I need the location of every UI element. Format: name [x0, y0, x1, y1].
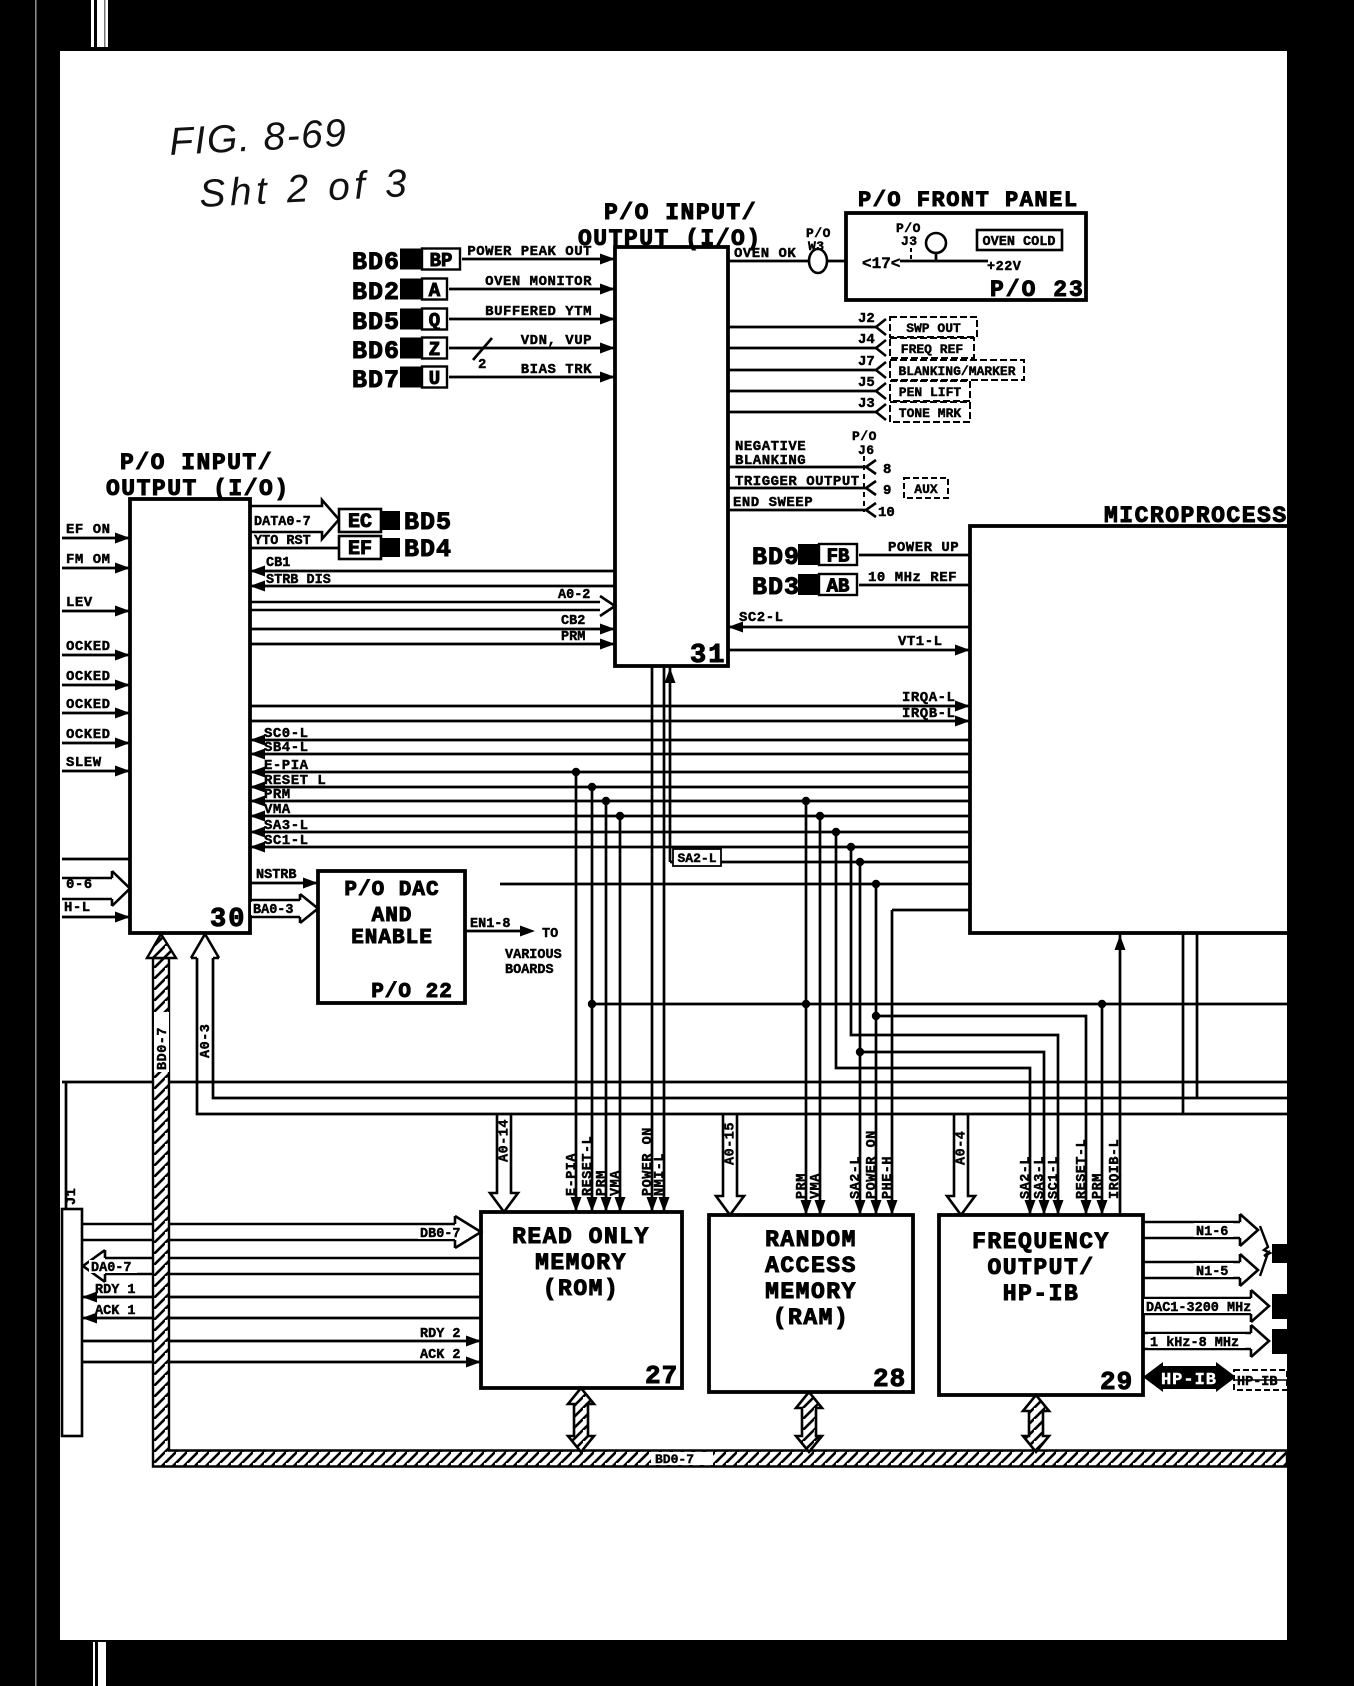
- junction dot POWER ON RAM: [872, 880, 880, 888]
- bus A0-15 open arrow drop: [716, 1114, 744, 1215]
- label AUX dashed box: [904, 478, 948, 498]
- svg-text:A0-2: A0-2: [558, 588, 590, 603]
- wire FM OM from sheet edge: [62, 567, 130, 570]
- wire to connector J5: [728, 390, 876, 393]
- svg-text:P/O: P/O: [852, 429, 877, 444]
- wire POWER UP into microprocessor: [859, 554, 970, 557]
- svg-text:SC2-L: SC2-L: [739, 610, 784, 626]
- svg-text:NMI-L: NMI-L: [653, 1153, 668, 1196]
- wire VMA drop to RAM: [819, 816, 822, 1215]
- svg-text:STRB DIS: STRB DIS: [266, 573, 331, 588]
- wire PHE-H stub from microprocessor: [892, 909, 970, 912]
- svg-text:OVEN MONITOR: OVEN MONITOR: [485, 274, 592, 290]
- svg-text:10: 10: [878, 505, 895, 521]
- svg-text:IRQB-L: IRQB-L: [902, 706, 955, 722]
- svg-text:TO: TO: [542, 927, 558, 942]
- svg-text:Z: Z: [429, 339, 440, 361]
- svg-text:J6: J6: [858, 443, 875, 458]
- wire NSTRB to DAC: [250, 882, 318, 885]
- svg-text:MEMORY: MEMORY: [765, 1279, 857, 1305]
- wire H-L input: [62, 916, 130, 919]
- svg-text:IRQIB-L: IRQIB-L: [1108, 1139, 1123, 1199]
- riser from block 31 bottom to SA2-L wire: [669, 666, 672, 862]
- svg-text:P/O INPUT/: P/O INPUT/: [120, 450, 273, 476]
- svg-text:OVEN OK: OVEN OK: [734, 246, 796, 262]
- svg-text:AB: AB: [827, 576, 850, 598]
- svg-text:J7: J7: [858, 354, 875, 370]
- wire LEV from sheet edge: [62, 610, 130, 613]
- hatched bus stub between RAM and BD0-7 trunk: [796, 1392, 822, 1452]
- signal flag [EF] BD4: [339, 536, 381, 559]
- backing sheet edge line in bottom slit: [95, 1642, 98, 1686]
- svg-text:BD0-7: BD0-7: [655, 1452, 694, 1467]
- svg-text:ACK 2: ACK 2: [420, 1348, 461, 1363]
- film scratch line in left black margin: [35, 0, 37, 1686]
- wire POWER ON from block 31 to ROM: [651, 666, 654, 1212]
- svg-text:POWER UP: POWER UP: [888, 540, 959, 556]
- svg-text:OCKED: OCKED: [66, 669, 111, 685]
- svg-text:BD4: BD4: [404, 535, 452, 564]
- wire RDY 1: [82, 1296, 481, 1299]
- thermostat symbol circle: [926, 233, 946, 253]
- wire IRQIB-L from FREQ to microprocessor: [1119, 933, 1122, 1215]
- svg-text:SB4-L: SB4-L: [264, 740, 309, 756]
- bus A0 rail upper line: [213, 958, 1287, 1098]
- label 1 kHz-8 MHz: [1148, 1334, 1245, 1348]
- svg-text:READ ONLY: READ ONLY: [512, 1224, 650, 1250]
- wire unlabeled input: [62, 858, 130, 861]
- wire PRM drop to ROM: [605, 801, 608, 1212]
- wire POWER ON distribution: [500, 883, 970, 886]
- svg-text:FM OM: FM OM: [66, 552, 111, 568]
- black flag DAC (clipped): [1272, 1294, 1287, 1319]
- svg-text:BD6: BD6: [352, 248, 400, 277]
- svg-text:AND: AND: [372, 905, 413, 928]
- RAM pin arrow POWER ON: [871, 1200, 882, 1215]
- wire OCKED from sheet edge: [62, 684, 130, 687]
- svg-text:BLANKING/MARKER: BLANKING/MARKER: [898, 364, 1015, 379]
- rail from connector J1 across sheet: [62, 1081, 1287, 1084]
- bus A0-4 open arrow drop: [947, 1114, 975, 1215]
- block 28 RANDOM ACCESS MEMORY (RAM): [709, 1215, 913, 1392]
- wire END SWEEP to J6 pin 10: [728, 509, 866, 512]
- bus BA0-3 open arrow to DAC: [250, 894, 318, 923]
- wire SA2-L drop to RAM: [859, 862, 862, 1215]
- wire to connector J2: [728, 326, 876, 329]
- svg-text:PRM: PRM: [561, 630, 585, 645]
- svg-text:SA2-L: SA2-L: [849, 1156, 864, 1199]
- svg-text:BP: BP: [430, 250, 453, 272]
- wire IRQA-L: [250, 705, 970, 708]
- RAM pin arrow VMA: [815, 1200, 826, 1215]
- connector J3 dashed stub: [910, 248, 912, 260]
- svg-text:DAC1-3200 MHz: DAC1-3200 MHz: [1146, 1301, 1251, 1316]
- label BA0-3: [251, 902, 299, 915]
- svg-text:1 kHz-8 MHz: 1 kHz-8 MHz: [1150, 1336, 1239, 1351]
- svg-text:VDN, VUP: VDN, VUP: [521, 333, 592, 349]
- svg-text:30: 30: [210, 905, 246, 935]
- svg-text:OCKED: OCKED: [66, 727, 111, 743]
- svg-text:SC1-L: SC1-L: [1047, 1156, 1062, 1199]
- svg-text:BD6: BD6: [352, 337, 400, 366]
- svg-text:FREQ REF: FREQ REF: [901, 342, 964, 357]
- svg-text:BOARDS: BOARDS: [505, 963, 554, 978]
- FREQ pin arrow SA3-L: [1039, 1200, 1050, 1215]
- RAM pin arrow PRM: [801, 1200, 812, 1215]
- block P/O FRONT PANEL: [846, 213, 1086, 300]
- svg-text:YTO RST: YTO RST: [254, 534, 311, 549]
- hatched bus stub between FREQ and BD0-7 trunk: [1023, 1395, 1049, 1452]
- wire CB1 from block 31: [250, 570, 615, 573]
- J6 pin 8 socket: [866, 460, 876, 474]
- wire OCKED from sheet edge: [62, 712, 130, 715]
- svg-text:SLEW: SLEW: [66, 755, 102, 771]
- svg-text:END SWEEP: END SWEEP: [733, 495, 813, 511]
- label BD0-7 rotated on vertical trunk: [154, 1012, 169, 1072]
- wire PHE-H drop to RAM: [891, 910, 894, 1215]
- svg-text:BUFFERED YTM: BUFFERED YTM: [485, 304, 592, 320]
- svg-text:POWER PEAK OUT: POWER PEAK OUT: [467, 244, 592, 260]
- svg-text:EC: EC: [348, 511, 372, 534]
- block 27 READ ONLY MEMORY (ROM): [481, 1212, 682, 1388]
- label DA0-7: [89, 1260, 137, 1273]
- bus 0-6 open arrow into block 30: [62, 871, 130, 906]
- block P/O DAC AND ENABLE (22): [318, 871, 465, 1003]
- svg-text:Q: Q: [429, 310, 440, 332]
- junction dot PRM rail: [802, 1000, 810, 1008]
- wire PRM to block 31: [250, 643, 615, 646]
- svg-text:RESET-L: RESET-L: [1075, 1139, 1090, 1199]
- svg-text:ACCESS: ACCESS: [765, 1253, 857, 1279]
- label OVEN COLD boxed: [977, 230, 1062, 250]
- svg-text:N1-6: N1-6: [1196, 1225, 1228, 1240]
- white slit in bottom black margin: [93, 1642, 106, 1686]
- J6 pin 9 socket: [866, 481, 876, 495]
- bus 1 kHz-8 MHz output pair with open arrow: [1143, 1325, 1269, 1357]
- ROM pin arrow POWER ON: [647, 1197, 658, 1212]
- svg-text:P/O 22: P/O 22: [371, 981, 453, 1004]
- svg-text:VMA: VMA: [809, 1173, 824, 1199]
- wire to connector J7: [728, 369, 876, 372]
- junction dot SA3-L: [832, 828, 840, 836]
- svg-text:RDY 2: RDY 2: [420, 1327, 461, 1342]
- wire TRIGGER OUTPUT to J6 pin 9: [728, 487, 866, 490]
- svg-text:PEN LIFT: PEN LIFT: [899, 385, 962, 400]
- wire EN1-8 output of DAC: [465, 930, 522, 933]
- connector J5 socket symbol: [876, 383, 886, 399]
- svg-text:A0-15: A0-15: [724, 1122, 739, 1165]
- wire STRB DIS from block 31: [250, 585, 615, 588]
- ROM pin arrow PRM: [601, 1197, 612, 1212]
- wire E-PIA drop to ROM: [575, 772, 578, 1212]
- junction dot E-PIA: [572, 768, 580, 776]
- svg-text:EF: EF: [348, 538, 372, 561]
- label SWP OUT dashed box: [890, 317, 977, 337]
- connector J3 socket symbol: [876, 404, 886, 420]
- connector J7 socket symbol: [876, 362, 886, 378]
- label PEN LIFT dashed box: [890, 381, 970, 401]
- striped label HP-IB at sheet edge: [1234, 1370, 1287, 1390]
- wire 10 MHz REF into microprocessor: [859, 584, 970, 587]
- svg-text:PRM: PRM: [795, 1173, 810, 1199]
- svg-text:2: 2: [478, 357, 487, 373]
- svg-text:E-PIA: E-PIA: [264, 758, 309, 774]
- bus A0-14 open arrow drop: [490, 1114, 518, 1212]
- junction dot RESET-L rail: [588, 1000, 596, 1008]
- junction dot SA2-L rail: [856, 1048, 864, 1056]
- svg-text:DA0-7: DA0-7: [91, 1261, 132, 1276]
- wire RDY 2: [82, 1340, 481, 1343]
- svg-text:FREQUENCY: FREQUENCY: [972, 1229, 1110, 1255]
- svg-text:8: 8: [883, 462, 891, 478]
- svg-text:DB0-7: DB0-7: [420, 1227, 461, 1242]
- svg-text:PRM: PRM: [264, 787, 291, 803]
- svg-text:BD3: BD3: [752, 573, 800, 602]
- wire OVEN OK from block 31 to front panel: [728, 260, 846, 263]
- wire OVEN MONITOR into block 31: [449, 288, 615, 291]
- wire RESET-L branch rail to FREQ: [876, 1016, 1086, 1215]
- svg-text:HP-IB: HP-IB: [1237, 1375, 1278, 1390]
- svg-text:EN1-8: EN1-8: [470, 917, 511, 932]
- svg-text:AUX: AUX: [914, 482, 938, 497]
- svg-text:E-PIA: E-PIA: [565, 1153, 580, 1196]
- svg-text:BD2: BD2: [352, 278, 400, 307]
- svg-text:DATA0-7: DATA0-7: [254, 515, 311, 530]
- svg-text:(RAM): (RAM): [773, 1305, 850, 1331]
- FREQ pin arrow PRM: [1097, 1200, 1108, 1215]
- white slit in top black margin: [91, 0, 108, 47]
- hatched bus stub between ROM and BD0-7 trunk: [568, 1388, 594, 1452]
- svg-text:MEMORY: MEMORY: [535, 1250, 627, 1276]
- svg-text:A0-4: A0-4: [955, 1131, 970, 1165]
- junction dot POWER ON rail: [872, 1012, 880, 1020]
- wire BUFFERED YTM into block 31: [449, 318, 615, 321]
- ROM pin arrow RESET-L: [587, 1197, 598, 1212]
- wire to connector J4: [728, 347, 876, 350]
- bus A0-2 to block 31 with open arrow: [250, 596, 615, 616]
- bus N1-5 output pair with open arrow: [1143, 1254, 1258, 1286]
- svg-text:N1-5: N1-5: [1196, 1265, 1228, 1280]
- wire VMA: [250, 815, 970, 818]
- junction dot VMA: [616, 812, 624, 820]
- svg-text:LEV: LEV: [66, 595, 93, 611]
- bus BD0-7 hatched arrowhead into block 30: [147, 934, 176, 958]
- svg-text:VARIOUS: VARIOUS: [505, 948, 562, 963]
- svg-text:0-6: 0-6: [66, 877, 93, 893]
- wire POWER PEAK OUT into block 31: [462, 258, 615, 261]
- wire SLEW from sheet edge: [62, 770, 130, 773]
- svg-text:CB1: CB1: [266, 556, 290, 571]
- svg-text:PHE-H: PHE-H: [881, 1156, 896, 1199]
- wire E-PIA: [250, 771, 970, 774]
- wire SC1-L staircase to FREQ: [851, 847, 1058, 1215]
- RAM pin arrow PHE-H: [887, 1200, 898, 1215]
- brace grouping N1-6/N1-5 to flag: [1260, 1226, 1270, 1276]
- bus BD0-7 hatched trunk (vertical + horizontal): [153, 958, 1287, 1467]
- junction dot VMA RAM: [816, 812, 824, 820]
- connector J6 dashed line: [863, 456, 865, 512]
- wire SA2-L branch rail to FREQ: [860, 1052, 1044, 1215]
- svg-text:<17<: <17<: [862, 255, 900, 273]
- svg-text:EF ON: EF ON: [66, 522, 111, 538]
- wire IRQB-L: [250, 720, 970, 723]
- label N1-5: [1194, 1263, 1233, 1277]
- svg-text:BIAS TRK: BIAS TRK: [521, 362, 592, 378]
- svg-text:ENABLE: ENABLE: [351, 927, 433, 950]
- svg-text:27: 27: [645, 1361, 678, 1391]
- rail RESET-L to right sheet edge: [592, 1003, 1287, 1006]
- svg-text:RDY 1: RDY 1: [95, 1283, 136, 1298]
- wire RESET L: [250, 786, 970, 789]
- ROM pin arrow NMI-L: [659, 1197, 670, 1212]
- svg-text:J1: J1: [65, 1188, 80, 1205]
- ROM pin arrow E-PIA: [571, 1197, 582, 1212]
- signal flag [EC] BD5: [339, 509, 381, 532]
- wire EF ON from sheet edge: [62, 537, 130, 540]
- svg-text:BD9: BD9: [752, 543, 800, 572]
- wire stub from microprocessor bottom 2: [1196, 933, 1199, 1098]
- J6 pin 10 socket: [866, 503, 876, 517]
- wire NEGATIVE BLANKING to J6 pin 8: [728, 466, 866, 469]
- FREQ pin arrow SC1-L: [1053, 1200, 1064, 1215]
- svg-text:BD5: BD5: [352, 308, 400, 337]
- svg-text:POWER ON: POWER ON: [865, 1130, 880, 1199]
- block 31 P/O INPUT/OUTPUT (I/O): [615, 247, 728, 666]
- svg-text:NSTRB: NSTRB: [256, 868, 297, 883]
- bus DATA0-7 fat open arrow to flag EC: [250, 500, 339, 539]
- wire SA3-L: [250, 831, 970, 834]
- block 29 FREQUENCY OUTPUT/HP-IB: [939, 1215, 1143, 1395]
- svg-text:ACK 1: ACK 1: [95, 1304, 136, 1319]
- label BD0-7 on horizontal trunk: [651, 1452, 713, 1465]
- wire PRM: [250, 800, 970, 803]
- svg-text:OUTPUT/: OUTPUT/: [987, 1255, 1094, 1281]
- backing sheet edge line in top slit: [94, 0, 97, 47]
- svg-text:BA0-3: BA0-3: [253, 903, 294, 918]
- svg-text:OCKED: OCKED: [66, 639, 111, 655]
- svg-text:SA3-L: SA3-L: [264, 818, 309, 834]
- svg-text:10 MHz REF: 10 MHz REF: [868, 570, 957, 586]
- wire OCKED from sheet edge: [62, 742, 130, 745]
- wire SA2-L from block 31 riser to microprocessor: [670, 861, 970, 864]
- block MICROPROCESSOR: [970, 526, 1300, 933]
- bus DA0-7 pair from ROM with open arrow to J1: [83, 1250, 481, 1282]
- wire SA3-L staircase to FREQ: [836, 832, 1030, 1215]
- wire POWER ON drop to RAM: [875, 884, 878, 1215]
- wire stub from microprocessor bottom 1: [1182, 933, 1185, 1114]
- svg-text:BD5: BD5: [404, 508, 452, 537]
- RAM pin arrow SA2-L: [855, 1200, 866, 1215]
- svg-text:31: 31: [690, 641, 726, 671]
- label BLANKING/MARKER dashed box: [890, 360, 1024, 380]
- junction dot SA2-L: [856, 858, 864, 866]
- label SA2-L boxed: [673, 849, 721, 866]
- label N1-6: [1194, 1223, 1233, 1237]
- connector J4 socket symbol: [876, 340, 886, 356]
- wire SC0-L: [250, 739, 970, 742]
- svg-text:P/O 23: P/O 23: [990, 277, 1085, 303]
- svg-text:W3: W3: [808, 239, 825, 254]
- svg-text:J5: J5: [858, 375, 875, 391]
- svg-text:PRM: PRM: [595, 1170, 610, 1196]
- svg-text:9: 9: [883, 483, 891, 499]
- svg-text:J2: J2: [858, 311, 875, 327]
- label DB0-7: [418, 1226, 468, 1239]
- wire VMA drop to ROM: [619, 816, 622, 1212]
- svg-text:SA2-L: SA2-L: [677, 851, 716, 866]
- junction dot PRM: [602, 797, 610, 805]
- svg-text:VT1-L: VT1-L: [898, 634, 943, 650]
- svg-text:OVEN COLD: OVEN COLD: [983, 235, 1056, 250]
- svg-text:U: U: [429, 368, 440, 390]
- svg-text:29: 29: [1100, 1367, 1133, 1397]
- svg-text:SA3-L: SA3-L: [1033, 1156, 1048, 1199]
- wire YTO RST to flag EF: [250, 547, 339, 550]
- wire OCKED from sheet edge: [62, 654, 130, 657]
- svg-text:A0-14: A0-14: [498, 1119, 513, 1162]
- bus DB0-7 pair to ROM with open arrow: [82, 1216, 481, 1248]
- svg-text:IRQA-L: IRQA-L: [902, 690, 955, 706]
- cable splice W3 circle: [809, 249, 827, 273]
- wire VDN, VUP into block 31: [449, 347, 615, 350]
- black flag kHz (clipped): [1272, 1329, 1287, 1354]
- wire SB4-L: [250, 753, 970, 756]
- wire +22V line inside front panel: [900, 260, 988, 263]
- wire NMI-L from block 31 to ROM: [663, 666, 666, 1212]
- ROM pin arrow VMA: [615, 1197, 626, 1212]
- bus-width slash /2 on VDN,VUP wire: [473, 338, 492, 360]
- svg-text:OCKED: OCKED: [66, 697, 111, 713]
- svg-text:SA2-L: SA2-L: [1019, 1156, 1034, 1199]
- wire VT1-L from block 31 to microprocessor: [728, 649, 970, 652]
- label TONE MRK dashed box: [890, 402, 970, 422]
- svg-text:VMA: VMA: [264, 802, 291, 818]
- wire SC2-L from microprocessor to block 31: [728, 626, 970, 629]
- svg-text:RESET-L: RESET-L: [581, 1136, 596, 1196]
- svg-text:HP-IB: HP-IB: [1003, 1281, 1080, 1307]
- svg-text:BD7: BD7: [352, 366, 400, 395]
- wire to connector J3: [728, 411, 876, 414]
- svg-text:SWP OUT: SWP OUT: [906, 321, 961, 336]
- black flag N1 (clipped): [1272, 1244, 1287, 1263]
- svg-text:SC1-L: SC1-L: [264, 833, 309, 849]
- junction dot PRM RAM: [802, 797, 810, 805]
- svg-text:A0-3: A0-3: [199, 1024, 214, 1058]
- label DAC1-3200 MHz: [1144, 1299, 1258, 1313]
- connector J2 socket symbol: [876, 319, 886, 335]
- wire ACK 2: [82, 1361, 481, 1364]
- wire BIAS TRK into block 31: [449, 376, 615, 379]
- connector J1: [62, 1209, 82, 1436]
- FREQ pin arrow SA2-L: [1025, 1200, 1036, 1215]
- wire SC1-L: [250, 846, 970, 849]
- svg-text:PRM: PRM: [1091, 1173, 1106, 1199]
- svg-text:P/O FRONT PANEL: P/O FRONT PANEL: [858, 188, 1079, 213]
- bus A0-3 open arrowhead into block 30: [191, 934, 219, 958]
- svg-text:FB: FB: [827, 546, 850, 568]
- svg-text:VMA: VMA: [609, 1170, 624, 1196]
- wire RESET-L drop to ROM: [591, 787, 594, 1212]
- svg-text:HP-IB: HP-IB: [1161, 1371, 1217, 1390]
- label FREQ REF dashed box: [890, 338, 974, 358]
- svg-text:J4: J4: [858, 332, 875, 348]
- svg-text:CB2: CB2: [561, 614, 585, 629]
- wire ACK 1: [82, 1317, 481, 1320]
- svg-text:P/O DAC: P/O DAC: [344, 879, 439, 902]
- wire PRM drop to RAM: [805, 801, 808, 1215]
- bus A0 rail lower line: [197, 958, 1287, 1114]
- svg-text:P/O INPUT/: P/O INPUT/: [604, 200, 757, 226]
